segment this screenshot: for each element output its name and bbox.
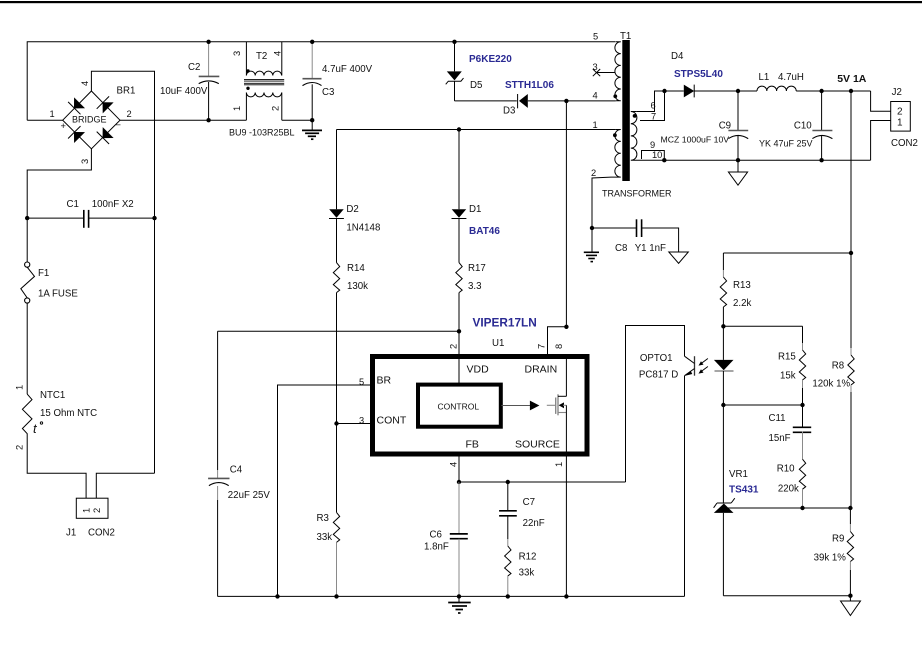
svg-text:MCZ 1000uF 10V: MCZ 1000uF 10V bbox=[661, 135, 730, 145]
capacitor C6 bbox=[424, 482, 468, 596]
resistor R12 bbox=[505, 546, 537, 596]
svg-text:4.7uF 400V: 4.7uF 400V bbox=[322, 64, 373, 75]
wire LED bottom junction bbox=[723, 404, 802, 406]
svg-text:2: 2 bbox=[591, 168, 596, 178]
svg-text:15nF: 15nF bbox=[769, 433, 791, 444]
svg-text:5: 5 bbox=[359, 377, 364, 387]
wire NTC bottom to J1 lead 1 bbox=[27, 438, 86, 499]
wire VR1 ref line bbox=[727, 507, 850, 509]
ground (open triangle) below C9 bbox=[728, 160, 747, 185]
svg-text:5: 5 bbox=[593, 32, 598, 42]
svg-text:2: 2 bbox=[15, 445, 25, 450]
svg-text:C11: C11 bbox=[769, 413, 786, 424]
wire fuse to NTC bbox=[26, 303, 28, 394]
svg-text:7: 7 bbox=[537, 344, 547, 349]
svg-text:D4: D4 bbox=[671, 51, 684, 62]
capacitor C11 bbox=[769, 405, 812, 459]
svg-text:FB: FB bbox=[466, 439, 479, 451]
node dot C9 top bbox=[736, 89, 740, 93]
wire bridge pin2 to C3 bottom bbox=[120, 119, 246, 121]
T2 core bbox=[244, 79, 284, 81]
fuse F1 bbox=[21, 262, 79, 303]
svg-text:STTH1L06: STTH1L06 bbox=[505, 80, 554, 91]
svg-text:D5: D5 bbox=[470, 80, 482, 91]
shunt regulator VR1 TS431 bbox=[714, 405, 759, 596]
svg-text:1: 1 bbox=[593, 120, 598, 130]
inductor L1 bbox=[757, 72, 871, 91]
svg-text:U1: U1 bbox=[492, 338, 504, 349]
wire 5V sense rail bbox=[850, 91, 852, 348]
svg-text:5V 1A: 5V 1A bbox=[837, 73, 867, 85]
arrow control to mosfet bbox=[501, 405, 530, 407]
resistor R10 bbox=[777, 459, 806, 508]
diode D4 STPS5L40 bbox=[671, 51, 757, 97]
wire bridge pin3 down-left to fuse chain bbox=[27, 149, 91, 262]
svg-text:R17: R17 bbox=[468, 263, 486, 274]
svg-text:220k: 220k bbox=[778, 484, 799, 495]
svg-text:C8: C8 bbox=[615, 243, 627, 254]
capacitor C2 bbox=[160, 42, 219, 120]
VDD pin wire inside bbox=[458, 331, 460, 384]
svg-text:−: − bbox=[116, 120, 121, 130]
svg-text:130k: 130k bbox=[347, 281, 368, 292]
svg-text:C6: C6 bbox=[430, 530, 442, 541]
wire R15 branch bbox=[723, 325, 802, 327]
svg-text:2: 2 bbox=[449, 344, 459, 349]
bridge BR1 bbox=[63, 91, 120, 149]
node dot D1 top bbox=[457, 127, 461, 131]
svg-text:P6KE220: P6KE220 bbox=[469, 54, 512, 65]
capacitor C9 bbox=[661, 91, 749, 160]
opto light arrows bbox=[699, 359, 708, 374]
svg-text:22nF: 22nF bbox=[523, 518, 545, 529]
svg-text:R3: R3 bbox=[317, 513, 329, 524]
ground (open triangle) bottom right bbox=[841, 596, 861, 616]
TVS diode D5 P6KE220 bbox=[446, 42, 513, 101]
svg-text:BRIDGE: BRIDGE bbox=[72, 115, 107, 125]
svg-text:22uF 25V: 22uF 25V bbox=[228, 490, 271, 501]
svg-text:STPS5L40: STPS5L40 bbox=[674, 69, 723, 80]
node dot D5 top bbox=[452, 40, 456, 44]
wire T2 pin2 to C3 bottom node bbox=[282, 119, 312, 121]
svg-text:R13: R13 bbox=[733, 280, 751, 291]
svg-text:9: 9 bbox=[650, 140, 655, 150]
wire drain vertical bbox=[565, 101, 567, 327]
svg-text:F1: F1 bbox=[38, 268, 49, 279]
svg-text:2: 2 bbox=[897, 107, 903, 118]
diamond outline bbox=[63, 91, 120, 149]
wire T1 pins 9/10 to output gnd bus bbox=[642, 151, 665, 161]
secondary ground bus bbox=[723, 595, 850, 597]
T1 pin3 stub with x bbox=[597, 72, 616, 74]
wire bridge pin4 up and right to x=154.5 vertical bbox=[91, 71, 154, 473]
svg-text:1: 1 bbox=[15, 385, 25, 390]
svg-text:T2: T2 bbox=[256, 51, 267, 62]
svg-text:C3: C3 bbox=[322, 87, 334, 98]
T1 primary top winding bbox=[615, 42, 621, 101]
bridge diode top-left bbox=[68, 98, 84, 114]
svg-text:4: 4 bbox=[593, 91, 598, 101]
node dot C1-left bbox=[25, 216, 29, 220]
svg-text:VR1: VR1 bbox=[729, 469, 748, 480]
svg-text:C1: C1 bbox=[67, 199, 79, 210]
wire CONT pin bbox=[337, 423, 375, 425]
svg-text:CONTROL: CONTROL bbox=[438, 402, 480, 412]
svg-text:3: 3 bbox=[593, 62, 598, 72]
wire FB down and feedback line bbox=[458, 454, 460, 482]
resistor R14 bbox=[333, 263, 368, 424]
capacitor C7 bbox=[499, 482, 545, 546]
wire R13 top to 5V rail bbox=[723, 252, 851, 254]
svg-text:DRAIN: DRAIN bbox=[525, 364, 558, 376]
wire J2 pin2 bbox=[871, 91, 891, 111]
svg-text:SOURCE: SOURCE bbox=[515, 439, 560, 451]
node dot CONT/R3 bbox=[334, 421, 338, 425]
svg-text:D1: D1 bbox=[469, 204, 481, 215]
resistor R8 bbox=[812, 355, 854, 508]
resistor R13 bbox=[720, 253, 751, 326]
svg-text:Y1 1nF: Y1 1nF bbox=[635, 243, 666, 254]
svg-text:VIPER17LN: VIPER17LN bbox=[473, 316, 537, 330]
wire source down bbox=[565, 454, 567, 596]
capacitor C8 bbox=[590, 219, 679, 254]
svg-text:BR: BR bbox=[377, 375, 392, 387]
svg-text:+: + bbox=[61, 121, 66, 131]
svg-text:VDD: VDD bbox=[467, 364, 490, 376]
svg-text:C7: C7 bbox=[523, 497, 535, 508]
svg-text:T1: T1 bbox=[620, 31, 631, 42]
svg-text:R8: R8 bbox=[832, 361, 844, 372]
T1 primary bottom winding bbox=[592, 130, 621, 229]
node dot C3 top bbox=[310, 40, 314, 44]
svg-text:1: 1 bbox=[897, 118, 903, 129]
thermistor NTC1 bbox=[15, 385, 98, 450]
diode D2 1N4148 bbox=[329, 130, 380, 263]
svg-text:39k 1%: 39k 1% bbox=[814, 553, 847, 564]
svg-text:L1: L1 bbox=[759, 72, 770, 83]
svg-text:C4: C4 bbox=[230, 465, 243, 476]
capacitor C1 bbox=[27, 199, 154, 228]
svg-text:10: 10 bbox=[652, 150, 662, 160]
svg-text:120k 1%: 120k 1% bbox=[812, 379, 850, 390]
resistor R15 bbox=[778, 326, 806, 405]
svg-text:100nF X2: 100nF X2 bbox=[92, 199, 134, 210]
wire J1 lead 2 bbox=[96, 473, 154, 498]
connector J1 bbox=[66, 498, 115, 538]
svg-text:3: 3 bbox=[232, 51, 242, 56]
svg-text:CON2: CON2 bbox=[891, 138, 918, 149]
T1 core bbox=[622, 40, 630, 181]
frame top border bbox=[0, 1, 922, 3]
svg-text:3: 3 bbox=[359, 416, 364, 426]
bridge diode top-right bbox=[97, 96, 113, 112]
svg-text:2: 2 bbox=[271, 106, 281, 111]
svg-text:1: 1 bbox=[232, 106, 242, 111]
svg-text:4.7uH: 4.7uH bbox=[778, 72, 804, 83]
node dot C2 top bbox=[206, 40, 210, 44]
svg-text:2: 2 bbox=[92, 508, 102, 513]
wire BR pin to ground bbox=[278, 385, 375, 596]
resistor R3 bbox=[317, 424, 340, 597]
svg-text:33k: 33k bbox=[519, 568, 535, 579]
opto LED bbox=[714, 326, 734, 405]
svg-text:TS431: TS431 bbox=[729, 485, 759, 496]
svg-text:1: 1 bbox=[50, 109, 55, 119]
svg-text:1: 1 bbox=[82, 508, 92, 513]
capacitor C4 bbox=[208, 331, 270, 596]
svg-text:R12: R12 bbox=[519, 552, 537, 563]
svg-text:YK 47uF 25V: YK 47uF 25V bbox=[759, 139, 813, 149]
svg-text:D2: D2 bbox=[346, 204, 358, 215]
svg-text:1: 1 bbox=[554, 462, 564, 467]
diode D1 BAT46 bbox=[452, 130, 501, 263]
primary ground bus bbox=[218, 595, 685, 597]
node dot VDD bbox=[457, 329, 461, 333]
svg-text:C9: C9 bbox=[719, 121, 731, 132]
svg-text:D3: D3 bbox=[503, 106, 515, 117]
svg-text:R9: R9 bbox=[832, 534, 844, 545]
svg-text:BAT46: BAT46 bbox=[469, 226, 500, 237]
connector J2 bbox=[891, 87, 918, 149]
svg-text:R10: R10 bbox=[777, 464, 795, 475]
T2 bottom coil bbox=[246, 93, 281, 97]
wire VDD to C4 bbox=[218, 330, 459, 332]
svg-text:BU9 -103R25BL: BU9 -103R25BL bbox=[229, 128, 295, 138]
svg-text:4: 4 bbox=[80, 81, 90, 86]
transformer T1 bbox=[591, 31, 672, 228]
svg-text:CON2: CON2 bbox=[88, 528, 115, 539]
wire J2 pin1 bbox=[871, 121, 891, 161]
svg-text:TRANSFORMER: TRANSFORMER bbox=[602, 189, 672, 199]
svg-text:8: 8 bbox=[554, 344, 564, 349]
node dot C10 top bbox=[819, 89, 823, 93]
svg-text:4: 4 bbox=[449, 462, 459, 467]
wire bridge pin1 to left rail bbox=[27, 119, 63, 121]
svg-text:1.8nF: 1.8nF bbox=[424, 542, 449, 553]
svg-text:15 Ohm NTC: 15 Ohm NTC bbox=[40, 408, 97, 419]
svg-text:33k: 33k bbox=[317, 532, 333, 543]
svg-text:10uF 400V: 10uF 400V bbox=[160, 86, 208, 97]
svg-text:2: 2 bbox=[127, 109, 132, 119]
wire top DC+ rail bbox=[27, 42, 615, 120]
resistor R17 bbox=[456, 263, 486, 332]
wire pins 7,8 bbox=[548, 327, 567, 358]
svg-text:C10: C10 bbox=[794, 121, 812, 132]
common-mode choke T2 bbox=[229, 42, 295, 138]
mosfet bbox=[547, 404, 556, 406]
svg-text:OPTO1: OPTO1 bbox=[640, 353, 673, 364]
svg-text:NTC1: NTC1 bbox=[40, 390, 65, 401]
resistor R9 bbox=[814, 508, 854, 596]
IC U1 VIPER17LN bbox=[359, 316, 587, 468]
capacitor C3 bbox=[303, 42, 373, 120]
svg-text:J1: J1 bbox=[66, 528, 76, 539]
T2 top coil bbox=[246, 71, 281, 75]
capacitor C10 bbox=[759, 91, 832, 160]
svg-text:J2: J2 bbox=[892, 87, 902, 98]
svg-text:3.3: 3.3 bbox=[468, 281, 481, 292]
ground (open triangle) at C8 right bbox=[669, 252, 689, 263]
node dot C1-right bbox=[152, 216, 156, 220]
ground (hatched) below T1 pin2 bbox=[584, 228, 599, 262]
wire T1 pins 6/7 to D4 bbox=[637, 91, 684, 112]
svg-text:R15: R15 bbox=[778, 352, 796, 363]
diode D3 STTH1L06 bbox=[455, 80, 616, 117]
svg-text:15k: 15k bbox=[780, 371, 796, 382]
ground (hatched) at C3 bbox=[302, 120, 322, 139]
svg-text:4: 4 bbox=[273, 51, 283, 56]
node dot 5V rail bbox=[849, 89, 853, 93]
node dot drain / T1 pin4 bbox=[564, 99, 568, 103]
svg-text:3: 3 bbox=[80, 159, 90, 164]
opto transistor bbox=[639, 353, 695, 381]
svg-text:C2: C2 bbox=[188, 62, 200, 73]
svg-text:2.2k: 2.2k bbox=[733, 298, 751, 309]
bridge diode bottom-right bbox=[97, 128, 113, 144]
optocoupler OPTO1 wires bbox=[459, 481, 626, 483]
svg-text:1N4148: 1N4148 bbox=[346, 223, 380, 234]
svg-text:BR1: BR1 bbox=[117, 86, 136, 97]
svg-text:1A FUSE: 1A FUSE bbox=[38, 289, 78, 300]
T1 secondary winding bbox=[631, 112, 638, 161]
ground (hatched) at bus bbox=[448, 596, 471, 613]
bridge diode bottom-left bbox=[68, 126, 84, 142]
svg-text:R14: R14 bbox=[347, 263, 365, 274]
svg-text:CONT: CONT bbox=[377, 415, 407, 427]
node dot C3 bottom / ground node bbox=[310, 118, 314, 122]
node dot C2 bottom bbox=[206, 118, 210, 122]
wire T1 pin1 line bbox=[337, 129, 616, 131]
svg-text:PC817 D: PC817 D bbox=[639, 370, 678, 381]
